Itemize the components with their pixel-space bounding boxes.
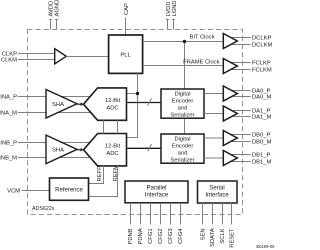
svg-text:DB1_P: DB1_P [252, 153, 271, 159]
chip boundary dashed border [28, 30, 243, 215]
REFP rail [103, 120, 105, 133]
LVDS buffer FCLK [223, 59, 237, 74]
svg-text:Serializer: Serializer [170, 157, 194, 163]
serial interface box [198, 181, 238, 203]
svg-text:REFM: REFM [113, 165, 119, 182]
pin AVDD [48, 1, 54, 30]
svg-text:DB1_M: DB1_M [252, 160, 272, 166]
svg-text:Serializer: Serializer [170, 112, 194, 118]
svg-text:Reference: Reference [55, 188, 83, 194]
svg-text:Encoder: Encoder [172, 98, 194, 104]
output pair wires DB1 [229, 154, 251, 156]
svg-text:PDNA: PDNA [138, 228, 144, 244]
REFM rail [117, 120, 119, 133]
svg-text:LGND: LGND [172, 0, 178, 16]
output pair wires FCLK [229, 62, 251, 64]
svg-text:Interface: Interface [145, 192, 169, 198]
pin LGND [172, 0, 178, 29]
svg-text:SDATA: SDATA [210, 228, 216, 247]
reference box [50, 178, 89, 200]
LVDS buffer DA1 [223, 106, 237, 121]
pin INB_P wire [18, 142, 91, 144]
wire encoder A to DA0 buffer [204, 93, 223, 95]
output pair wires DB0 [229, 134, 251, 136]
wire serializer A to serializer B clock [184, 118, 186, 134]
SHA B [46, 135, 77, 164]
svg-text:VCM: VCM [7, 189, 20, 195]
svg-text:FCLKP: FCLKP [252, 61, 271, 67]
SHA A [46, 90, 77, 119]
svg-text:DA1_M: DA1_M [252, 115, 272, 121]
pin AGND [54, 0, 60, 30]
svg-text:DA0_M: DA0_M [252, 95, 272, 101]
svg-text:AGND: AGND [54, 0, 60, 17]
svg-text:DCLKP: DCLKP [252, 36, 271, 42]
PLL box U1 [109, 35, 143, 73]
bus ADC B to encoder B [127, 147, 161, 149]
svg-text:Encoder: Encoder [172, 143, 194, 149]
pin CFG1 [150, 203, 152, 224]
output pair wires DA0 [229, 90, 251, 92]
svg-text:ADC: ADC [106, 105, 118, 111]
pin SCLK [222, 203, 224, 224]
wire encoder A to DA1 buffer [204, 113, 223, 115]
pin CLKP wire [18, 53, 55, 55]
pin LVDD [166, 1, 172, 29]
pin SEN [202, 203, 204, 224]
svg-text:Serial: Serial [209, 185, 224, 191]
svg-text:CFG1: CFG1 [148, 228, 154, 243]
bus slash A [148, 98, 152, 105]
svg-text:Digital: Digital [174, 91, 190, 97]
LVDS buffer DA0 [223, 86, 237, 101]
pin CLKM wire [18, 59, 55, 61]
svg-text:LVDD: LVDD [166, 1, 172, 16]
svg-text:CLKM: CLKM [1, 58, 17, 64]
ADC B 12-bit [84, 134, 127, 166]
LVDS buffer DB1 [223, 151, 237, 166]
svg-text:INB_P: INB_P [0, 141, 17, 147]
svg-text:INA_P: INA_P [0, 95, 17, 101]
svg-text:12-Bit: 12-Bit [105, 143, 121, 149]
pin CFG3 [170, 203, 172, 224]
svg-text:RESET: RESET [230, 228, 236, 248]
wire clock buffer to PLL [66, 56, 108, 58]
svg-text:ADS622x: ADS622x [32, 206, 55, 212]
svg-text:SCLK: SCLK [220, 228, 226, 243]
pin INB_M wire [18, 157, 91, 159]
svg-text:PLL: PLL [120, 52, 131, 58]
arrow SHA A to ADC A [77, 103, 81, 105]
svg-text:REFP: REFP [97, 166, 103, 182]
pin PDNA [140, 203, 142, 224]
pin CFG4 [180, 203, 182, 224]
svg-text:FCLKM: FCLKM [252, 68, 272, 74]
wire PLL clock rail down [127, 73, 138, 93]
svg-text:CFG3: CFG3 [168, 228, 174, 243]
svg-text:ADC: ADC [106, 151, 118, 157]
svg-text:CFG2: CFG2 [158, 228, 164, 243]
pin CAP [124, 3, 130, 35]
svg-text:and: and [178, 150, 188, 156]
svg-text:DCLKM: DCLKM [252, 43, 272, 49]
svg-text:SHA: SHA [52, 102, 64, 108]
ADC A 12-bit [84, 88, 127, 120]
svg-text:DB0_M: DB0_M [252, 140, 272, 146]
svg-text:INB_M: INB_M [0, 156, 17, 162]
bus slash B [148, 144, 152, 151]
pin INA_P wire [18, 96, 91, 98]
svg-text:12-Bit: 12-Bit [105, 98, 121, 104]
svg-text:Digital: Digital [174, 136, 190, 142]
output pair wires DA1 [229, 110, 251, 112]
LVDS buffer DB0 [223, 131, 237, 146]
wire FRAME clock [143, 65, 224, 67]
pin CFG2 [160, 203, 162, 224]
wire BIT clock down to serializer A [184, 42, 186, 90]
svg-text:and: and [178, 105, 188, 111]
arrow SHA B to ADC B [77, 149, 81, 151]
svg-text:B0199-06: B0199-06 [256, 244, 275, 249]
wire clock rail to ADC B [127, 94, 138, 138]
svg-text:CFG4: CFG4 [178, 228, 184, 244]
svg-text:Parallel: Parallel [146, 185, 166, 191]
junction dot clock rail [136, 92, 139, 95]
pin RESET [231, 203, 233, 224]
svg-text:INA_M: INA_M [0, 111, 17, 117]
svg-text:CAP: CAP [124, 3, 130, 15]
pin PDNB [130, 203, 132, 224]
bus ADC A to encoder A [127, 102, 161, 104]
svg-text:FRAME Clock: FRAME Clock [183, 60, 219, 66]
digital encoder and serializer A [161, 89, 204, 118]
pin SDATA [212, 203, 214, 224]
svg-text:PDNB: PDNB [128, 228, 134, 244]
svg-text:DB0_P: DB0_P [252, 133, 271, 139]
pin VCM wire [22, 190, 50, 192]
svg-text:BIT Clock: BIT Clock [189, 35, 214, 41]
clock input buffer [55, 49, 67, 64]
digital encoder and serializer B [161, 134, 204, 163]
wire encoder B to DB1 buffer [204, 157, 223, 159]
wire encoder B to DB0 buffer [204, 137, 223, 139]
svg-text:Interface: Interface [205, 192, 229, 198]
wire BIT clock [143, 41, 224, 43]
LVDS buffer DCLK [223, 34, 237, 49]
pin INA_M wire [18, 112, 91, 114]
output pair wires DCLK [229, 37, 251, 39]
parallel interface box [125, 181, 188, 203]
svg-text:CLKP: CLKP [2, 52, 17, 58]
junction dot BIT clock [183, 40, 186, 43]
svg-text:SEN: SEN [201, 228, 207, 240]
svg-text:SHA: SHA [52, 148, 64, 154]
